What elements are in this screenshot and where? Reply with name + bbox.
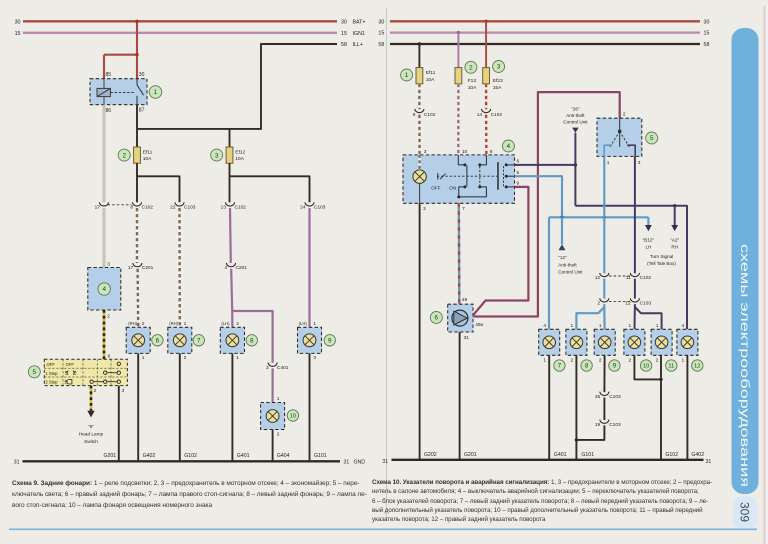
- caption schema 10: [372, 478, 712, 524]
- svg-text:3: 3: [122, 388, 125, 394]
- wire: lamp 12 to ground G402: [686, 355, 688, 459]
- wire: burgundy turn switch pin 2 to flasher 49a: [473, 92, 619, 316]
- circle 1 (fuse callout): [401, 69, 413, 81]
- svg-text:8: 8: [490, 149, 493, 155]
- wire: lamp 8 to ground G401: [231, 353, 233, 461]
- head lamp switch 5 (table): [44, 359, 127, 385]
- connector 17 C201: [128, 263, 154, 271]
- svg-text:7: 7: [558, 363, 562, 370]
- svg-text:"A2": "A2": [670, 238, 679, 243]
- svg-text:C201: C201: [236, 265, 248, 271]
- svg-text:C102: C102: [424, 112, 436, 118]
- wire: indigo turn switch pin3 down to connectors: [634, 156, 636, 273]
- svg-text:10A: 10A: [468, 85, 477, 91]
- svg-text:2: 2: [599, 358, 602, 364]
- svg-text:86: 86: [106, 108, 112, 114]
- circle 4 (hazard switch callout): [502, 140, 514, 152]
- svg-text:4: 4: [102, 286, 106, 293]
- dashed link conn17-conn8: [108, 204, 132, 206]
- bus 30 BAT+ (left): [15, 19, 366, 25]
- svg-text:1: 1: [682, 358, 685, 364]
- svg-text:12: 12: [694, 364, 700, 370]
- bus 58 (right): [378, 42, 709, 48]
- svg-text:31: 31: [464, 335, 470, 341]
- stub arrow "26" Anti-theft Control Unit: [563, 106, 588, 132]
- bus 30 (right): [378, 19, 709, 25]
- svg-text:4: 4: [682, 323, 685, 329]
- svg-text:3: 3: [424, 149, 427, 155]
- svg-text:(LH): (LH): [299, 321, 308, 326]
- svg-text:15: 15: [704, 31, 710, 37]
- connector 22 C103: [170, 202, 196, 210]
- svg-text:2: 2: [656, 358, 659, 364]
- wire: striped violet fuse F13 to hazard switch pin 10: [457, 84, 460, 155]
- connector 12 C102 (blue): [595, 273, 609, 281]
- svg-text:1: 1: [313, 321, 316, 327]
- svg-text:Ef23: Ef23: [493, 78, 503, 84]
- wire: lamp 9 to ground G101: [309, 353, 311, 461]
- svg-text:1: 1: [629, 323, 632, 329]
- svg-text:1: 1: [236, 355, 239, 361]
- circle 2 (fuse callout): [465, 61, 477, 73]
- svg-text:5: 5: [650, 135, 654, 142]
- wire: 58 tap to fuse Ef11: [418, 42, 421, 67]
- svg-text:2: 2: [629, 358, 632, 364]
- svg-text:15: 15: [15, 31, 21, 37]
- wire: flasher 31 to ground G201: [459, 332, 461, 459]
- svg-text:1: 1: [184, 321, 187, 327]
- svg-text:(LH): (LH): [221, 321, 230, 326]
- wire: lamp 10 ground jog to lamp 11 wire: [634, 355, 661, 379]
- svg-text:C102: C102: [640, 275, 652, 281]
- wire: lamp 6 to ground G402: [137, 353, 139, 461]
- wire: striped red connector 14 to hazard switch pin 8: [485, 115, 488, 155]
- svg-text:30: 30: [704, 19, 710, 25]
- svg-text:G401: G401: [554, 452, 567, 458]
- svg-text:31: 31: [382, 459, 388, 465]
- circle 4 (economizer callout): [98, 283, 110, 295]
- wire: 30 tap to fuse Ef23: [484, 20, 487, 68]
- svg-text:4: 4: [543, 323, 546, 329]
- svg-text:Ef12: Ef12: [235, 149, 245, 155]
- stub arrow "6" Head Lamp Switch: [79, 411, 104, 444]
- svg-text:IGN1: IGN1: [353, 31, 365, 37]
- svg-text:Head Lamp: Head Lamp: [79, 432, 104, 437]
- svg-text:6: 6: [156, 338, 160, 345]
- svg-text:49: 49: [462, 297, 468, 303]
- wire: hazard pin 2 to ground G202: [419, 203, 421, 459]
- svg-text:1: 1: [607, 160, 610, 166]
- svg-text:12: 12: [595, 275, 601, 281]
- svg-text:31: 31: [706, 459, 712, 465]
- svg-text:C401: C401: [277, 365, 289, 371]
- svg-text:C102: C102: [235, 205, 247, 211]
- lamp 6 right tail lamp: [126, 321, 150, 361]
- svg-text:RH: RH: [671, 245, 678, 250]
- lamp 10 licence plate lamp: [261, 396, 285, 437]
- svg-text:2: 2: [469, 65, 473, 72]
- wire: violet conn4 to lamp 8 and branch to lamp 10: [231, 269, 272, 363]
- svg-text:8: 8: [250, 338, 254, 345]
- svg-text:C103: C103: [609, 422, 621, 428]
- svg-text:G201: G201: [103, 453, 116, 459]
- svg-text:30: 30: [139, 72, 145, 78]
- svg-text:10: 10: [290, 414, 296, 420]
- sidebar blue tab: [732, 28, 759, 494]
- lamp 7 left rear turn signal: [539, 323, 560, 364]
- svg-text:7: 7: [197, 338, 201, 345]
- svg-text:(Tell Tale Box): (Tell Tale Box): [647, 261, 676, 266]
- page right edge tint: [764, 6, 768, 544]
- svg-text:C201: C201: [142, 265, 154, 271]
- svg-text:G404: G404: [277, 453, 290, 459]
- svg-text:15: 15: [378, 31, 384, 37]
- svg-text:2: 2: [571, 358, 574, 364]
- lamp 7 right stop lamp: [168, 321, 192, 361]
- wire: 15 tap to fuse F13: [457, 31, 460, 68]
- circle 5 (turn switch callout): [646, 132, 658, 144]
- lamp 9 left repeater turn signal: [594, 323, 615, 364]
- svg-text:3: 3: [313, 355, 316, 361]
- svg-text:BAT+: BAT+: [353, 19, 366, 25]
- svg-text:3: 3: [215, 152, 219, 159]
- dashed link conn2-conn12: [609, 300, 630, 302]
- circle 7 (lamp callout): [193, 335, 204, 346]
- svg-text:(RH): (RH): [128, 321, 137, 326]
- connector 2 C103 (blue): [597, 298, 608, 306]
- svg-text:C102: C102: [491, 112, 503, 118]
- svg-text:2: 2: [142, 321, 145, 327]
- wire: bus30 to relay pins 30/85: [104, 20, 139, 79]
- connector 8 C102: [130, 202, 153, 210]
- svg-text:G201: G201: [464, 452, 477, 458]
- svg-text:OFF: OFF: [431, 186, 440, 191]
- svg-text:24: 24: [300, 205, 306, 211]
- svg-text:1: 1: [543, 358, 546, 364]
- wire: lamp 7 to ground G401: [548, 355, 550, 459]
- svg-text:10A: 10A: [235, 156, 244, 162]
- svg-text:10A: 10A: [426, 77, 435, 83]
- svg-text:G202: G202: [424, 452, 437, 458]
- svg-text:4: 4: [224, 265, 227, 271]
- circle 10 (lamp callout): [640, 360, 651, 371]
- wire: burgundy hazard pin 9 to flasher 49a: [473, 187, 528, 315]
- svg-text:C103: C103: [640, 301, 652, 307]
- svg-text:3: 3: [107, 262, 110, 268]
- wire: indigo net pin6/26/A2/lamp12: [515, 133, 688, 329]
- wire: fuse Ef12 to connectors 13/24: [230, 163, 310, 202]
- wire: blue fork to lamps 8 and 9: [576, 304, 604, 329]
- wire: indigo conn11 to conn12: [634, 279, 636, 299]
- svg-text:Turn Signal: Turn Signal: [650, 254, 673, 259]
- turn signal switch 5: [597, 111, 642, 165]
- page number tab 309: [733, 497, 758, 530]
- svg-text:17: 17: [128, 265, 134, 271]
- relay K1 (interior light relay): [90, 72, 147, 114]
- wire: violet conn24 to lamp 9: [308, 208, 310, 327]
- stub arrow B12 LH: [643, 225, 655, 250]
- connector 9 C102: [413, 109, 436, 118]
- svg-text:7: 7: [462, 206, 465, 212]
- svg-text:Control Unit: Control Unit: [563, 120, 588, 125]
- svg-text:6: 6: [517, 159, 520, 165]
- circle 8 (lamp callout): [581, 360, 592, 371]
- connector 11 C102 (indigo): [626, 273, 652, 281]
- svg-text:14: 14: [477, 112, 483, 118]
- circle 9 (lamp callout): [609, 360, 620, 371]
- wire: indigo fork to lamps 10 and 11: [635, 304, 662, 329]
- svg-text:F13: F13: [468, 78, 477, 84]
- svg-text:G402: G402: [143, 453, 156, 459]
- svg-text:10: 10: [462, 149, 468, 155]
- wire: lamp 11 to ground G102: [659, 355, 662, 459]
- svg-text:58: 58: [341, 42, 347, 48]
- svg-text:1: 1: [571, 323, 574, 329]
- fuse Ef11 10A (left, circle 2): [134, 147, 153, 163]
- lamp 9 left stop lamp: [298, 321, 322, 361]
- wire: lamp 9 ground with connectors to lamp 8 wire: [576, 355, 604, 440]
- svg-text:58: 58: [704, 42, 710, 48]
- wire: brown striped conn8 to conn17 C201: [136, 208, 138, 263]
- svg-text:C103: C103: [609, 394, 621, 400]
- lamp 8 left front turn signal: [566, 323, 587, 364]
- svg-text:1: 1: [154, 89, 158, 96]
- connector 24 C103: [300, 202, 326, 210]
- circle 7 (lamp callout): [554, 360, 565, 371]
- svg-text:87: 87: [139, 107, 145, 113]
- connector 17 (white wire): [95, 202, 109, 210]
- svg-text:LH: LH: [645, 245, 651, 250]
- svg-text:GND: GND: [354, 460, 366, 466]
- svg-text:(RH): (RH): [169, 321, 178, 326]
- svg-text:"26": "26": [571, 106, 580, 111]
- wire: violet conn13 to conn4 C201: [229, 208, 232, 263]
- ground bus 31 (right): [382, 459, 711, 465]
- circle 10 (lamp callout): [287, 410, 298, 421]
- svg-text:25: 25: [595, 394, 601, 400]
- lamp 8 left tail lamp: [220, 321, 244, 361]
- svg-text:19: 19: [595, 422, 601, 428]
- svg-text:Anti-theft: Anti-theft: [566, 113, 585, 118]
- svg-text:85: 85: [106, 72, 112, 78]
- wire: brown striped conn17 to lamp 6: [136, 269, 139, 328]
- svg-text:G101: G101: [314, 453, 327, 459]
- economizer unit 4: [88, 268, 121, 311]
- svg-text:"6": "6": [88, 424, 94, 429]
- wire: lamp 8 to ground G101: [575, 355, 578, 459]
- stub arrow "12" Anti-theft Control Unit: [558, 244, 583, 274]
- svg-text:2: 2: [236, 321, 239, 327]
- svg-text:Switch: Switch: [84, 439, 98, 444]
- svg-text:6: 6: [108, 353, 111, 359]
- wire: economizer pin 2 yellow/black to light switch pin 6: [104, 310, 111, 359]
- svg-text:"B12": "B12": [643, 238, 655, 243]
- circle 2 (fuse callout): [118, 149, 130, 161]
- svg-text:1: 1: [142, 355, 145, 361]
- wire: striped blue/red hazard pin 7 to flasher 49: [459, 203, 468, 304]
- circle 8 (lamp callout): [246, 335, 257, 346]
- wire: blue net pin5/B12/12/lamp7 feed: [515, 176, 649, 329]
- wire: striped red fuse Ef23 to connector 14: [485, 84, 487, 110]
- svg-text:C102: C102: [142, 205, 154, 211]
- svg-text:9: 9: [328, 338, 332, 345]
- svg-text:3: 3: [497, 64, 501, 71]
- svg-text:Anti-theft: Anti-theft: [558, 262, 577, 267]
- circle 9 (lamp callout): [324, 335, 335, 346]
- fuse Ef11 10A (right, circle 1): [416, 68, 436, 84]
- svg-text:2: 2: [597, 301, 600, 307]
- svg-text:1: 1: [405, 72, 409, 79]
- svg-text:4: 4: [507, 143, 511, 150]
- wire: relay 87 / 58-net down to fuses: [137, 105, 230, 147]
- wire: blue conn12 to conn2: [603, 279, 605, 299]
- svg-text:10: 10: [643, 364, 649, 370]
- lamp 12 right rear turn signal: [677, 323, 698, 364]
- svg-text:Ef11: Ef11: [143, 149, 153, 155]
- svg-text:схемы электрооборудования: схемы электрооборудования: [738, 244, 751, 487]
- fuse F13 10A (circle 2): [455, 68, 477, 92]
- stub arrow A2 RH: [670, 225, 679, 250]
- svg-text:1: 1: [656, 323, 659, 329]
- svg-text:2: 2: [423, 206, 426, 212]
- wire: fuse Ef11 to connectors 8/22: [137, 163, 180, 202]
- svg-text:2: 2: [184, 355, 187, 361]
- label Turn Signal (Tell Tale Box): [647, 254, 676, 266]
- wire: white wire conn17 to economizer pin 3: [104, 208, 110, 268]
- svg-text:15: 15: [341, 31, 347, 37]
- svg-text:ILL+: ILL+: [353, 42, 363, 48]
- svg-text:30: 30: [341, 19, 347, 25]
- hazard switch unit 4: [403, 149, 520, 212]
- svg-text:2: 2: [623, 111, 626, 117]
- svg-text:30: 30: [15, 19, 21, 25]
- svg-text:G401: G401: [237, 453, 250, 459]
- svg-text:1 Step: 1 Step: [45, 371, 58, 376]
- connector 3 C401: [266, 363, 289, 371]
- svg-text:3: 3: [266, 365, 269, 371]
- svg-text:Control Unit: Control Unit: [558, 270, 583, 275]
- wire: switch pin 3 to ground G201: [119, 386, 125, 461]
- circle 12 (lamp callout): [692, 360, 703, 371]
- svg-text:2: 2: [94, 388, 97, 394]
- panel divider line: [386, 8, 388, 521]
- svg-text:30: 30: [378, 19, 384, 25]
- svg-text:C103: C103: [314, 205, 326, 211]
- svg-text:49a: 49a: [475, 322, 483, 328]
- connector 14 C102: [477, 109, 503, 118]
- svg-text:8: 8: [585, 363, 589, 370]
- svg-text:8: 8: [130, 205, 133, 211]
- svg-text:9: 9: [413, 112, 416, 118]
- svg-text:5: 5: [33, 369, 37, 376]
- circle 3 (fuse callout): [493, 61, 505, 73]
- svg-text:2: 2: [122, 152, 126, 159]
- circle 5 (switch callout): [28, 366, 40, 378]
- circle 6 (flasher callout): [430, 312, 442, 324]
- bus 15 IGN1 (left): [15, 31, 365, 37]
- svg-text:22: 22: [170, 205, 176, 211]
- connector 4 C201: [224, 263, 247, 271]
- fuse Ef12 10A (left, circle 3): [226, 147, 245, 163]
- lamp 11 right front turn signal: [651, 323, 672, 364]
- svg-text:15A: 15A: [493, 85, 502, 91]
- bottom rule: [9, 528, 757, 530]
- svg-text:Ef11: Ef11: [426, 70, 436, 76]
- svg-text:2 Step: 2 Step: [45, 380, 58, 385]
- svg-text:G102: G102: [184, 453, 197, 459]
- wire: switch pin 2 yellow/black to head lamp switch stub: [91, 386, 97, 411]
- lamp 10 right repeater turn signal: [624, 323, 645, 364]
- svg-text:6: 6: [435, 315, 439, 322]
- circle 11 (lamp callout): [666, 360, 677, 371]
- svg-text:C103: C103: [184, 205, 196, 211]
- svg-text:2: 2: [277, 431, 280, 437]
- circle 1 (relay callout): [149, 86, 162, 99]
- circle 3 (fuse callout): [211, 149, 223, 161]
- wire: lamp 10 to ground G404: [272, 430, 274, 462]
- svg-text:13: 13: [221, 205, 227, 211]
- svg-text:31: 31: [344, 460, 350, 466]
- circle 6 (lamp callout): [152, 335, 163, 346]
- wire: brown striped conn22 to lamp 7: [178, 208, 181, 327]
- wire: striped brown fuse Ef11 to connector 9: [418, 84, 420, 110]
- fuse Ef23 15A (circle 3): [483, 68, 503, 92]
- connector 19 C103: [595, 420, 621, 428]
- svg-text:11: 11: [668, 364, 674, 370]
- connector 25 C103: [595, 392, 621, 400]
- wire: striped brown connector 9 to hazard switch pin 3: [418, 115, 421, 155]
- svg-text:ON: ON: [449, 186, 456, 191]
- svg-text:9: 9: [613, 363, 617, 370]
- wire: violet conn3 to lamp 10: [272, 368, 274, 402]
- svg-text:G101: G101: [581, 452, 594, 458]
- svg-text:31: 31: [14, 460, 20, 466]
- svg-text:10A: 10A: [143, 156, 152, 162]
- dashed link conn12-conn11: [609, 275, 630, 277]
- bus 58 ILL+ (left): [137, 42, 363, 129]
- svg-text:OFF: OFF: [47, 362, 56, 367]
- svg-text:"12": "12": [558, 255, 567, 260]
- wire: blue turn switch pin1 down to connectors: [603, 156, 605, 273]
- svg-text:OFF: OFF: [66, 362, 75, 367]
- svg-text:309: 309: [738, 502, 752, 522]
- turn signal flasher unit 6: [448, 304, 484, 341]
- wire: lamp 7 to ground G102: [179, 353, 181, 461]
- svg-text:3: 3: [638, 160, 641, 166]
- connector 12 C103 (indigo): [625, 298, 651, 306]
- svg-text:G402: G402: [691, 452, 704, 458]
- ground bus 31 (left): [14, 460, 366, 466]
- caption schema 9: [12, 479, 367, 512]
- svg-text:2: 2: [107, 313, 110, 319]
- connector 13 C102: [221, 202, 247, 210]
- bus 15 (right): [378, 31, 709, 37]
- svg-text:58: 58: [378, 42, 384, 48]
- wire: relay 86 white wire down to connector 17: [103, 105, 105, 203]
- svg-text:G102: G102: [665, 452, 678, 458]
- svg-text:1: 1: [599, 323, 602, 329]
- svg-text:1: 1: [277, 396, 280, 402]
- svg-text:17: 17: [95, 205, 101, 211]
